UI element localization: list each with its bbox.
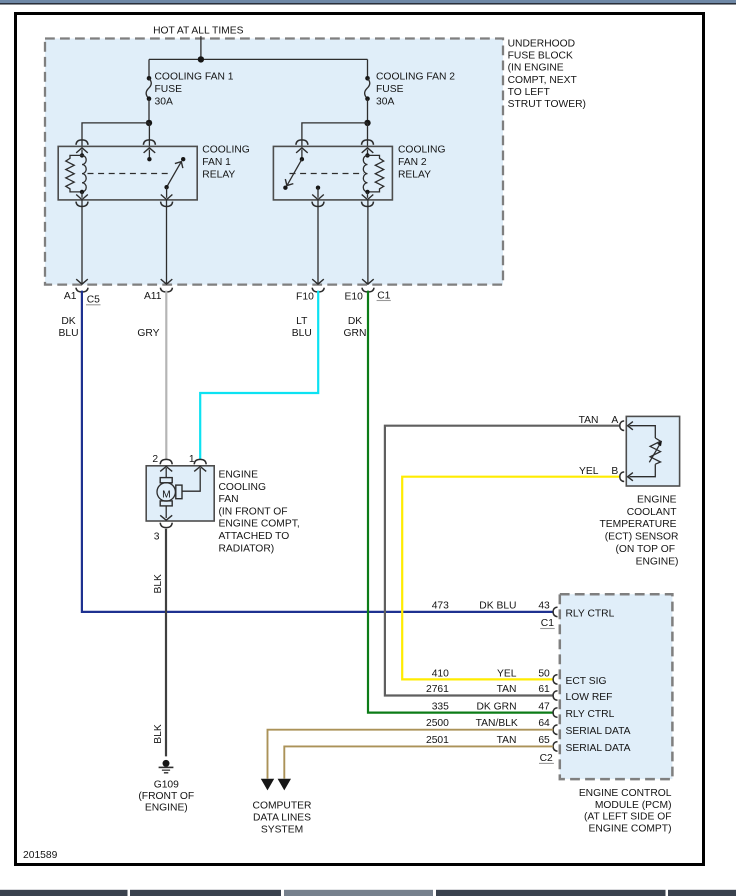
label circuit 410 YEL 50 (432, 668, 550, 679)
svg-text:ENGINE: ENGINE (637, 494, 677, 505)
thermistor arrow (649, 443, 660, 462)
svg-text:ENGINE COMPT,: ENGINE COMPT, (219, 519, 300, 530)
svg-text:DK GRN: DK GRN (476, 701, 516, 712)
svg-text:RLY CTRL: RLY CTRL (566, 709, 615, 720)
svg-text:BLU: BLU (58, 328, 78, 339)
svg-text:C1: C1 (541, 618, 554, 629)
svg-text:FAN 1: FAN 1 (202, 157, 231, 168)
svg-text:ATTACHED TO: ATTACHED TO (219, 531, 290, 542)
connector cup relay2 common bottom (312, 202, 324, 207)
ECT pin A arrow (628, 422, 633, 430)
svg-text:C2: C2 (540, 753, 553, 764)
svg-text:30A: 30A (376, 96, 394, 107)
svg-text:A: A (611, 415, 618, 426)
svg-text:DK BLU: DK BLU (479, 600, 516, 611)
label G109 (138, 780, 194, 814)
relay1 coil resistor (66, 155, 82, 192)
connector cup relay1 switch bottom (161, 202, 173, 207)
svg-text:335: 335 (432, 701, 449, 712)
wire fuse1 to relay1 coil (82, 123, 149, 146)
svg-text:E10: E10 (344, 292, 363, 303)
node bus junction (198, 56, 204, 62)
svg-text:DK: DK (348, 316, 362, 327)
connector cup relay2 coil bottom (362, 202, 374, 207)
wire GRY (A11 to fan pin 2) (165, 291, 167, 459)
svg-text:COMPUTER: COMPUTER (253, 801, 312, 812)
label ECT sensor (599, 494, 678, 567)
ECT pin B arrow (628, 473, 633, 481)
svg-text:LOW REF: LOW REF (566, 692, 613, 703)
svg-text:43: 43 (538, 600, 550, 611)
svg-text:410: 410 (432, 668, 449, 679)
engine cooling fan assembly (146, 454, 214, 543)
wire LT BLU (F10 to fan pin 1) (200, 291, 318, 459)
wire TAN 2761 (ECT A to PCM 61) (385, 426, 620, 696)
svg-text:3: 3 (154, 532, 160, 543)
connector cup PCM 61 (553, 691, 557, 701)
label circuit 335 DK GRN 47 (432, 701, 550, 712)
svg-text:(ECT) SENSOR: (ECT) SENSOR (605, 532, 679, 543)
svg-text:ENGINE): ENGINE) (636, 556, 679, 567)
label circuit 2761 TAN 61 (426, 684, 550, 695)
arrow serial data 2 (278, 779, 291, 791)
svg-text:(IN ENGINE: (IN ENGINE (508, 63, 564, 74)
svg-text:GRY: GRY (137, 328, 159, 339)
connector cup PCM 64 (553, 725, 557, 735)
fuse COOLING FAN 2 30A (364, 59, 370, 126)
svg-text:FAN: FAN (219, 494, 239, 505)
fan pin 3 arrow (165, 506, 167, 518)
connector cup ECT pin A (620, 421, 624, 431)
svg-text:MODULE (PCM): MODULE (PCM) (595, 800, 672, 811)
svg-text:ENGINE COMPT): ENGINE COMPT) (589, 823, 672, 834)
fan pin 2 arrow (160, 467, 172, 472)
svg-text:RELAY: RELAY (398, 170, 431, 181)
relay1 switch contact (181, 157, 185, 161)
svg-text:COOLING FAN 1: COOLING FAN 1 (155, 71, 234, 82)
svg-text:LT: LT (296, 316, 308, 327)
label engine cooling fan (219, 470, 300, 555)
connector cup PCM 50 (553, 675, 557, 685)
connector cup relay1 common top (143, 140, 155, 145)
connector cup PCM 43 (553, 607, 557, 617)
svg-text:G109: G109 (154, 780, 179, 791)
connector cup F10 (312, 288, 324, 292)
svg-text:GRN: GRN (344, 328, 367, 339)
label PCM (579, 788, 672, 834)
svg-text:ECT SIG: ECT SIG (566, 676, 607, 687)
relay K1 COOLING FAN 1 RELAY (58, 140, 197, 200)
fuse COOLING FAN 1 30A (146, 59, 152, 126)
svg-text:(ON TOP OF: (ON TOP OF (615, 544, 675, 555)
label relay2 (398, 145, 446, 181)
label circuit 2500 TAN/BLK 64 (426, 718, 550, 729)
svg-text:COOLANT: COOLANT (627, 507, 677, 518)
connector cup relay1 coil top (76, 140, 88, 145)
relay2 coil-switch dashed link (290, 173, 365, 175)
svg-text:COMPT, NEXT: COMPT, NEXT (508, 75, 578, 86)
svg-text:(FRONT OF: (FRONT OF (138, 791, 194, 802)
thermistor zigzag (650, 438, 660, 464)
connector cup fan pin 2 (160, 459, 172, 464)
svg-text:F10: F10 (296, 292, 314, 303)
relay1 switch arm (167, 162, 181, 187)
label fuse 1 (155, 71, 234, 107)
svg-text:RELAY: RELAY (202, 170, 235, 181)
svg-text:47: 47 (538, 701, 550, 712)
svg-text:61: 61 (538, 684, 550, 695)
svg-text:UNDERHOOD: UNDERHOOD (508, 39, 576, 50)
fan body (146, 466, 214, 521)
svg-text:30A: 30A (155, 96, 173, 107)
svg-text:(AT LEFT SIDE OF: (AT LEFT SIDE OF (584, 812, 672, 823)
wire DK BLU 473 (A1 to PCM 43) (82, 291, 553, 612)
svg-text:65: 65 (538, 735, 550, 746)
relay2 common pin (316, 186, 320, 190)
svg-text:STRUT TOWER): STRUT TOWER) (508, 99, 586, 110)
ground G109 (159, 760, 174, 773)
svg-text:M: M (162, 489, 171, 500)
svg-text:ENGINE CONTROL: ENGINE CONTROL (579, 788, 672, 799)
fan pin 1 arrow (194, 467, 206, 472)
svg-text:TAN: TAN (579, 415, 599, 426)
svg-text:A1: A1 (64, 291, 77, 302)
connector cup A11 (160, 288, 172, 292)
svg-text:DATA LINES: DATA LINES (253, 813, 311, 824)
relay K2 COOLING FAN 2 RELAY (273, 140, 392, 200)
label underhood fuse block (508, 39, 586, 111)
svg-text:TEMPERATURE: TEMPERATURE (599, 519, 676, 530)
wire DK GRN 335 (E10 to PCM 47) (368, 291, 553, 713)
PCM module box (560, 594, 673, 779)
svg-text:RADIATOR): RADIATOR) (219, 543, 275, 554)
relay1 coil out arrow (81, 192, 83, 198)
wire relay1 coil to A1 (81, 200, 83, 284)
PCM pin names (566, 608, 631, 754)
connector cup E10/C1 (362, 288, 374, 292)
wire YEL 410 (ECT B to PCM 50) (402, 477, 619, 680)
relay2 coil winding (363, 155, 367, 191)
wire relay2 common to F10 (317, 200, 319, 284)
svg-text:BLK: BLK (153, 574, 164, 594)
relay2 body (273, 146, 392, 200)
connector cup relay1 coil bottom (76, 202, 88, 207)
connector cup PCM 47 (553, 708, 557, 718)
relay1 coil pin arrow (76, 148, 88, 153)
label DK BLU wire color (58, 316, 78, 339)
svg-text:TAN: TAN (497, 684, 517, 695)
svg-text:BLU: BLU (292, 328, 312, 339)
label circuit 2501 TAN 65 (426, 735, 550, 746)
svg-text:ENGINE: ENGINE (219, 470, 259, 481)
svg-text:TAN/BLK: TAN/BLK (476, 718, 518, 729)
connector C5 (86, 294, 101, 305)
svg-text:FUSE: FUSE (155, 84, 183, 95)
svg-text:FUSE: FUSE (376, 84, 404, 95)
wire fuse2 to relay2 coil (367, 123, 369, 146)
svg-text:50: 50 (538, 668, 550, 679)
svg-text:ENGINE): ENGINE) (145, 803, 188, 814)
svg-text:1: 1 (189, 454, 195, 465)
ECT body (626, 416, 679, 486)
connector cup relay2 coil top (362, 140, 374, 145)
wire hot feed (200, 36, 202, 59)
ECT sensor (620, 416, 680, 486)
label circuit 473 DK BLU 43 (432, 600, 550, 611)
wire fuse2 to relay2 switch (302, 123, 368, 146)
relay1 common pin (144, 148, 156, 153)
label LT BLU wire color (292, 316, 312, 339)
svg-text:2761: 2761 (426, 684, 449, 695)
wire BLK (fan pin 3 to G109) (165, 529, 167, 757)
svg-text:TO LEFT: TO LEFT (508, 87, 551, 98)
svg-text:201589: 201589 (23, 850, 58, 861)
svg-text:COOLING: COOLING (398, 145, 446, 156)
label DK GRN wire color (344, 316, 367, 339)
svg-text:BLK: BLK (153, 724, 164, 744)
label computer data lines (253, 801, 312, 836)
connector C1 (PCM) (540, 618, 555, 629)
label relay1 (202, 145, 250, 181)
connector cup relay2 switch top (296, 140, 308, 145)
connector cup fan pin 3 (160, 523, 172, 528)
relay1 coil-switch dashed link (88, 173, 172, 175)
svg-text:2500: 2500 (426, 718, 449, 729)
connector C1 (fuse block) (377, 291, 391, 302)
relay2 coil resistor (368, 155, 384, 192)
relay2 switch pin arrow (296, 148, 308, 153)
svg-text:RLY CTRL: RLY CTRL (566, 608, 615, 619)
motor M (157, 483, 175, 501)
relay1 coil winding (82, 155, 86, 191)
relay2 coil pin arrow (362, 148, 374, 153)
svg-text:COOLING: COOLING (219, 482, 267, 493)
relay1 switch out arrow (166, 187, 168, 198)
underhood fuse block (dashed box) (45, 39, 503, 285)
relay1 body (58, 146, 197, 200)
svg-text:FAN 2: FAN 2 (398, 157, 427, 168)
svg-text:B: B (611, 466, 618, 477)
connector cup ECT pin B (620, 472, 624, 482)
relay2 coil out arrow (367, 192, 369, 198)
svg-text:YEL: YEL (497, 668, 517, 679)
svg-text:473: 473 (432, 600, 449, 611)
wire TAN 2501 (PCM 65 to data lines) (284, 746, 553, 778)
arrow serial data 1 (261, 779, 274, 791)
svg-text:HOT AT ALL TIMES: HOT AT ALL TIMES (153, 26, 244, 37)
wire supply bus (149, 58, 368, 60)
svg-text:YEL: YEL (579, 466, 599, 477)
svg-text:SYSTEM: SYSTEM (261, 825, 303, 836)
svg-text:2: 2 (152, 454, 158, 465)
svg-text:COOLING FAN 2: COOLING FAN 2 (376, 71, 455, 82)
connector cup fan pin 1 (194, 459, 206, 464)
connector C2 (PCM) (539, 753, 554, 764)
wire fuse1 to relay1 common (148, 123, 150, 146)
svg-text:DK: DK (61, 316, 75, 327)
relay2 switch arm (287, 159, 302, 185)
wire relay2 coil to E10 (367, 200, 369, 284)
svg-text:COOLING: COOLING (202, 145, 250, 156)
svg-text:SERIAL DATA: SERIAL DATA (566, 726, 631, 737)
svg-text:(IN FRONT OF: (IN FRONT OF (219, 506, 288, 517)
svg-text:C5: C5 (87, 294, 100, 305)
svg-text:64: 64 (538, 718, 550, 729)
svg-text:A11: A11 (144, 291, 162, 302)
svg-text:FUSE BLOCK: FUSE BLOCK (508, 51, 573, 62)
wire relay1 switch to A11 (166, 200, 168, 284)
svg-text:SERIAL DATA: SERIAL DATA (566, 743, 631, 754)
connector cup PCM 65 (553, 742, 557, 752)
wire TAN/BLK 2500 (PCM 64 to data lines) (268, 730, 554, 779)
connector cup A1/C5 (76, 288, 88, 292)
svg-text:2501: 2501 (426, 735, 449, 746)
label fuse 2 (376, 71, 455, 107)
svg-text:TAN: TAN (497, 735, 517, 746)
